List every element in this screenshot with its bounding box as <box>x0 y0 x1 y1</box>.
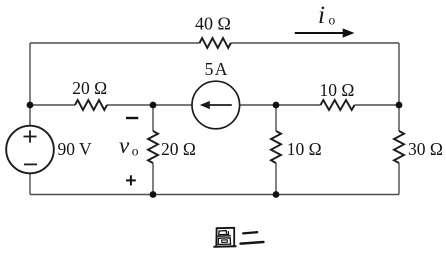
resistor 10ohm (vertical) <box>271 131 281 163</box>
wire bottom rail <box>30 194 399 196</box>
voltage source plus sign <box>24 130 37 142</box>
current source arrow head <box>200 101 210 109</box>
wire 10ohm right to node D <box>355 104 400 106</box>
resistor 10ohm (horizontal) <box>321 100 355 110</box>
caption: character er (two) <box>241 232 264 243</box>
svg-text:30 Ω: 30 Ω <box>408 139 443 159</box>
wire 30ohm bottom to bottom rail <box>398 163 400 195</box>
wire 20ohm vertical bottom to node E <box>152 163 154 195</box>
vo plus sign <box>126 175 136 185</box>
wire node A to 20ohm left <box>30 104 75 106</box>
wire left vertical upper <box>29 43 31 105</box>
node C junction dot <box>273 102 280 109</box>
wire node C to 10ohm vertical top <box>275 105 277 131</box>
wire 10ohm vertical bottom to node F <box>275 163 277 195</box>
current source 5A circle <box>192 81 240 129</box>
wire node D to 30ohm top <box>398 105 400 131</box>
resistor 40ohm (top) <box>200 38 231 48</box>
wire node B to 20ohm vertical top <box>152 105 154 131</box>
svg-text:40 Ω: 40 Ω <box>195 14 231 34</box>
vo minus sign <box>126 117 138 119</box>
wire node A to voltage source top <box>29 105 31 126</box>
resistor 20ohm (horizontal) <box>75 100 107 110</box>
wire top left segment <box>30 42 200 44</box>
io current arrow shaft <box>295 32 344 34</box>
svg-text:v: v <box>119 133 130 158</box>
node F junction dot <box>273 191 280 198</box>
svg-text:90 V: 90 V <box>58 139 93 159</box>
svg-text:5 A: 5 A <box>205 59 228 79</box>
node E junction dot <box>150 191 157 198</box>
svg-text:10 Ω: 10 Ω <box>320 80 355 100</box>
current source arrow shaft <box>208 104 232 106</box>
voltage source 90V circle <box>6 126 54 174</box>
wire top right segment <box>231 42 399 44</box>
node B junction dot <box>150 102 157 109</box>
caption: character tu (figure) <box>214 228 236 247</box>
io current arrow head <box>343 28 355 37</box>
resistor 30ohm (vertical) <box>394 131 404 163</box>
resistor 20ohm (vertical) <box>148 131 158 163</box>
svg-text:20 Ω: 20 Ω <box>72 78 107 98</box>
wire node C to 10ohm left <box>276 104 321 106</box>
node A junction dot <box>27 102 34 109</box>
wire node B to current source left <box>153 104 192 106</box>
svg-text:o: o <box>132 144 139 159</box>
wire right vertical upper <box>398 43 400 105</box>
wire current source right to node C <box>240 104 276 106</box>
svg-text:o: o <box>329 13 336 28</box>
svg-text:i: i <box>318 2 325 29</box>
wire voltage source bottom to bottom rail <box>29 173 31 195</box>
wire 20ohm right to node B <box>107 104 153 106</box>
svg-text:20 Ω: 20 Ω <box>161 139 196 159</box>
svg-text:10 Ω: 10 Ω <box>287 139 322 159</box>
voltage source minus sign <box>24 163 37 165</box>
node D junction dot <box>396 102 403 109</box>
